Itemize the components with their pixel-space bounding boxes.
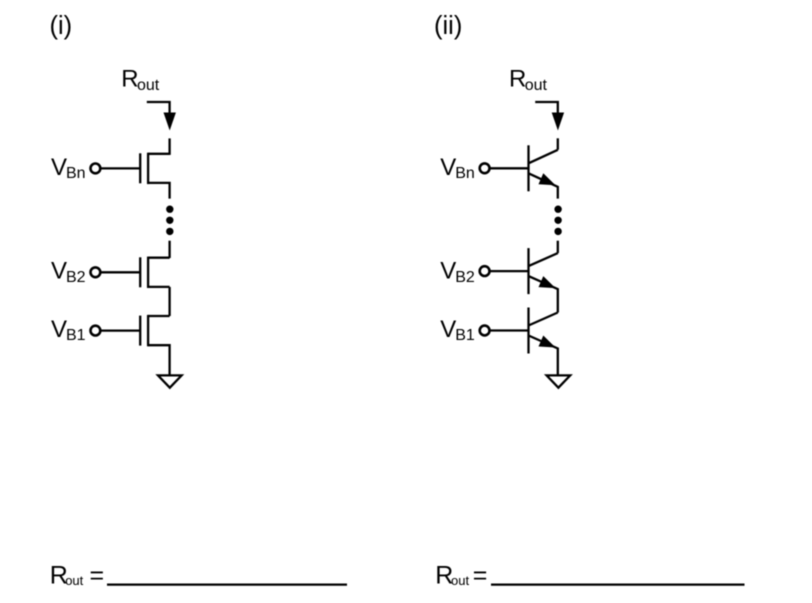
- transistor M1 (NMOS, gate VB1): [140, 315, 169, 375]
- svg-text:(i): (i): [50, 12, 73, 40]
- svg-text:V: V: [440, 316, 456, 343]
- svg-text:B1: B1: [455, 327, 475, 344]
- svg-text:Bn: Bn: [66, 165, 86, 182]
- transistor Q1 (NPN, base VB1): [529, 308, 558, 376]
- svg-text:out: out: [65, 573, 83, 588]
- svg-text:Bn: Bn: [455, 165, 475, 182]
- wire gate VB1 (i): [100, 329, 140, 331]
- answer label Rout = (circuit ii): [435, 562, 487, 590]
- wire gate VB2 (i): [100, 271, 140, 273]
- ground (circuit i): [158, 375, 182, 387]
- wire M2 source to M1 drain: [168, 287, 170, 316]
- terminal circle VBn (ii): [480, 163, 490, 173]
- answer blank line (circuit i): [107, 583, 347, 585]
- svg-text:V: V: [51, 316, 67, 343]
- transistor Mn (NMOS, gate VBn): [140, 153, 169, 199]
- Rout probe arrow (circuit ii): [535, 102, 564, 131]
- svg-text:out: out: [451, 573, 469, 588]
- svg-text:V: V: [51, 154, 67, 181]
- svg-text:V: V: [440, 154, 456, 181]
- label VB1 (ii): [440, 316, 475, 344]
- svg-text:B1: B1: [66, 327, 86, 344]
- svg-text:(ii): (ii): [434, 12, 462, 40]
- svg-text:B2: B2: [66, 269, 86, 286]
- svg-text:B2: B2: [455, 269, 475, 286]
- Rout probe arrow (circuit i): [147, 102, 176, 131]
- terminal circle VB1 (i): [91, 326, 101, 336]
- wire collector stub above Qn: [557, 138, 559, 150]
- wire between dots and Q2: [557, 241, 559, 253]
- answer blank line (circuit ii): [491, 583, 745, 585]
- wire gate VBn (i): [100, 167, 140, 169]
- transistor M2 (NMOS, gate VB2): [140, 257, 169, 288]
- label VB2 (i): [51, 258, 86, 286]
- svg-text:out: out: [137, 77, 160, 94]
- wire base VBn (ii): [490, 167, 529, 169]
- terminal circle VB2 (i): [91, 267, 101, 277]
- svg-text:out: out: [525, 77, 548, 94]
- wire between dots and M2: [168, 241, 170, 258]
- svg-text:=: =: [90, 562, 105, 590]
- label Rout (circuit i): [121, 66, 159, 95]
- transistor Q2 (NPN, base VB2): [529, 248, 558, 312]
- terminal circle VB1 (ii): [480, 326, 490, 336]
- wire drain stub above Mn: [168, 138, 170, 155]
- transistor Qn (NPN, base VBn): [529, 145, 558, 198]
- ellipsis dots (circuit ii): [554, 206, 561, 236]
- svg-text:=: =: [473, 562, 488, 590]
- terminal circle VB2 (ii): [480, 266, 490, 276]
- svg-text:V: V: [440, 258, 456, 285]
- label VBn (ii): [440, 154, 475, 182]
- svg-text:V: V: [51, 258, 67, 285]
- terminal circle VBn (i): [91, 164, 101, 174]
- wire base VB2 (ii): [490, 270, 529, 272]
- label VB2 (ii): [440, 258, 475, 286]
- ground (circuit ii): [547, 375, 571, 387]
- answer label Rout = (circuit i): [50, 562, 104, 590]
- ellipsis dots (circuit i): [166, 206, 173, 236]
- wire base VB1 (ii): [490, 329, 529, 331]
- wire Q2 emitter to Q1 collector: [529, 313, 558, 326]
- label Rout (circuit ii): [509, 66, 547, 95]
- label VB1 (i): [51, 316, 86, 344]
- label VBn (i): [51, 154, 86, 182]
